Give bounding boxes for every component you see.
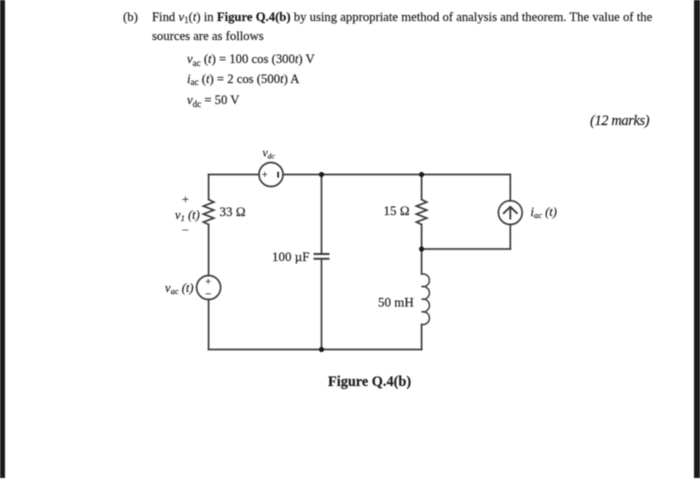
resistor R1 33 ohm zigzag bbox=[203, 200, 213, 225]
svg-text:+: + bbox=[262, 170, 268, 181]
left black scan bar bbox=[0, 0, 5, 478]
svg-text:+: + bbox=[205, 277, 211, 288]
current source iac circle bbox=[498, 201, 522, 225]
svg-text:−: − bbox=[205, 289, 211, 301]
wire capacitor branch lower bbox=[321, 259, 323, 350]
svg-text:Figure Q.4(b): Figure Q.4(b) bbox=[328, 374, 411, 390]
svg-text:v1 (t): v1 (t) bbox=[175, 208, 200, 223]
resistor R2 15 ohm zigzag bbox=[416, 200, 426, 225]
node A junction dot bbox=[319, 172, 324, 177]
wire right rail upper (top rail to iac source) bbox=[509, 175, 511, 201]
current source iac arrow bbox=[504, 207, 517, 219]
wire top-left (left rail top corner to Vdc source) bbox=[209, 174, 259, 176]
wire bottom rail bbox=[209, 349, 422, 351]
capacitor C1 100uF plates bbox=[315, 253, 329, 255]
node B junction dot bbox=[419, 172, 424, 177]
wire 15-ohm branch upper lead bbox=[421, 175, 423, 200]
svg-text:iac (t): iac (t) bbox=[531, 205, 557, 220]
svg-text:vac (t): vac (t) bbox=[165, 281, 194, 296]
wire left rail middle (resistor R1 to vac source) bbox=[208, 225, 210, 276]
svg-text:33 Ω: 33 Ω bbox=[220, 204, 246, 219]
wire right rail lower (iac source to sub-loop bottom) bbox=[509, 224, 511, 249]
problem text bbox=[123, 11, 138, 24]
inductor L1 50mH coil bbox=[422, 274, 430, 325]
voltage source Vdc circle bbox=[259, 163, 283, 187]
wire node C to inductor bbox=[421, 249, 423, 274]
voltage source vac circle bbox=[197, 276, 221, 300]
node D junction dot (bottom rail) bbox=[319, 347, 324, 352]
svg-text:15 Ω: 15 Ω bbox=[384, 203, 410, 218]
node C junction dot bbox=[419, 246, 424, 251]
wire top-middle (Vdc source to node B rail through node A) bbox=[283, 174, 510, 176]
wire inductor bottom lead bbox=[421, 325, 423, 350]
wire left rail lower (vac source to bottom rail) bbox=[208, 300, 210, 350]
svg-text:50 mH: 50 mH bbox=[378, 295, 414, 310]
svg-text:−: − bbox=[182, 223, 189, 237]
wire capacitor branch upper bbox=[321, 175, 323, 255]
wire left rail upper (corner to resistor R1) bbox=[208, 175, 210, 200]
svg-text:100 µF: 100 µF bbox=[272, 249, 309, 264]
Vdc minus bar bbox=[277, 172, 279, 178]
wire 15-ohm branch to node C bbox=[421, 225, 423, 250]
wire sub-loop bottom (node C to right rail) bbox=[422, 248, 511, 250]
right black scan bar bbox=[694, 0, 700, 478]
svg-text:+: + bbox=[182, 192, 189, 206]
svg-text:vdc: vdc bbox=[263, 148, 276, 161]
